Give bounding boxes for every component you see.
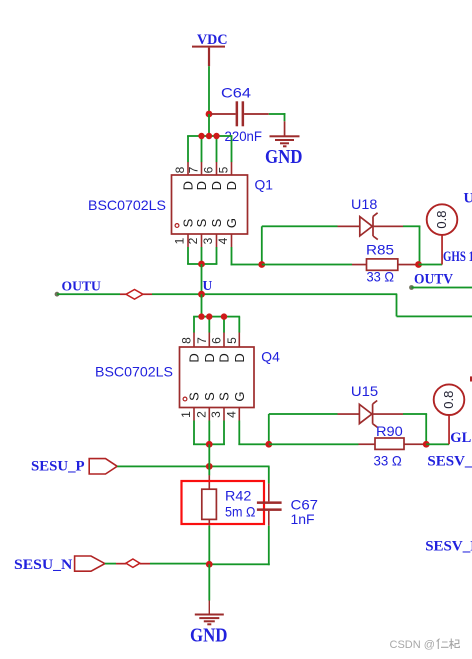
- Q4 top pin numbers 8 7 6 5: [180, 337, 239, 344]
- svg-text:G: G: [224, 218, 239, 228]
- Q1 pin names S S S G: [181, 218, 240, 228]
- svg-text:D: D: [217, 353, 232, 362]
- svg-text:R90: R90: [376, 423, 403, 439]
- svg-text:4: 4: [216, 237, 230, 244]
- wire node U to Q4: [201, 294, 203, 317]
- wire U15 to corner: [373, 413, 427, 445]
- svg-text:D: D: [194, 181, 209, 190]
- port SESU_N: [14, 556, 105, 573]
- svg-text:S: S: [209, 218, 224, 227]
- svg-text:8: 8: [173, 166, 187, 173]
- svg-text:U1: U1: [464, 191, 472, 207]
- wire C67 branch: [268, 466, 270, 565]
- svg-text:GND: GND: [190, 625, 228, 647]
- svg-text:3: 3: [209, 411, 223, 418]
- wire Q4 gate: [238, 414, 269, 445]
- wire Q1 source rail: [187, 247, 217, 265]
- svg-text:BSC0702LS: BSC0702LS: [88, 197, 166, 213]
- Q1 top pin numbers 8 7 6 5: [173, 166, 231, 173]
- wire Q1 gate: [231, 226, 263, 265]
- svg-text:S: S: [217, 392, 232, 401]
- svg-text:OUTV: OUTV: [414, 271, 453, 287]
- wire Q1 drain rail: [187, 114, 232, 162]
- svg-text:33 Ω: 33 Ω: [374, 453, 402, 469]
- wire SESU_N to C67 corner: [209, 563, 270, 565]
- svg-text:GHS 1: GHS 1: [443, 249, 472, 265]
- transistor Q4 body: [180, 347, 255, 408]
- Q1 bottom pin stubs: [187, 234, 232, 247]
- Q1 top pin stubs: [187, 162, 232, 176]
- svg-text:SESU_P: SESU_P: [31, 459, 85, 475]
- svg-text:5: 5: [217, 166, 231, 173]
- Q4 bottom pin stubs: [193, 408, 240, 421]
- svg-text:6: 6: [202, 166, 216, 173]
- svg-text:U18: U18: [351, 196, 378, 212]
- probe circle 0.8 top: [427, 204, 458, 235]
- junction Q1 gate: [258, 261, 265, 268]
- svg-text:33 Ω: 33 Ω: [367, 269, 395, 285]
- svg-text:0.8: 0.8: [434, 211, 449, 229]
- Q1 pin1 marker circle: [175, 224, 179, 228]
- wire OUTV: [409, 285, 472, 290]
- junction Q4 source: [206, 441, 213, 448]
- junction SESU_P: [206, 463, 213, 470]
- junction node U: [198, 291, 205, 298]
- resistor R42: [202, 487, 256, 519]
- svg-text:CSDN @: CSDN @: [390, 639, 435, 651]
- svg-text:D: D: [202, 353, 217, 362]
- svg-text:S: S: [194, 218, 209, 227]
- transistor Q1 body: [172, 175, 248, 234]
- svg-text:SESU_N: SESU_N: [14, 557, 72, 573]
- svg-text:C64: C64: [221, 85, 251, 101]
- svg-text:D: D: [232, 353, 247, 362]
- Q4 top pin stubs: [193, 333, 240, 348]
- Q1 pin names D D D D: [181, 181, 240, 190]
- svg-text:7: 7: [195, 337, 209, 344]
- wire Q4 source rail: [193, 421, 225, 446]
- watermark CSDN: [390, 639, 460, 652]
- junction R90 output: [423, 441, 430, 448]
- svg-text:1nF: 1nF: [291, 511, 315, 527]
- svg-text:R85: R85: [366, 241, 394, 257]
- svg-text:S: S: [202, 392, 217, 401]
- diode U15: [351, 383, 379, 427]
- junction dots Q1 drain rail: [198, 133, 219, 139]
- wire Q4 drain rail: [193, 316, 240, 333]
- wire to diode U18: [262, 225, 360, 227]
- Q1 bottom pin numbers 1 2 3 4: [173, 237, 231, 244]
- svg-text:SESV_N: SESV_N: [425, 539, 472, 555]
- svg-text:D: D: [224, 181, 239, 190]
- Q4 pin1 marker circle: [183, 397, 187, 401]
- svg-text:5m Ω: 5m Ω: [225, 503, 255, 519]
- wire R42 bottom: [208, 519, 210, 565]
- port SESU_P: [31, 459, 117, 475]
- svg-text:SESV_P: SESV_P: [427, 454, 472, 470]
- svg-text:OUTU: OUTU: [62, 280, 101, 295]
- svg-text:5: 5: [225, 337, 239, 344]
- wire to ground bottom: [208, 564, 210, 614]
- svg-text:2: 2: [194, 411, 208, 418]
- no-ERC diamond OUTU: [126, 290, 143, 300]
- red tick right edge: [470, 376, 472, 381]
- resistor R85: [352, 241, 419, 284]
- svg-text:0.8: 0.8: [441, 391, 456, 409]
- svg-text:G: G: [232, 391, 247, 401]
- wire GHS: [419, 235, 443, 265]
- junction Q4 gate: [265, 441, 272, 448]
- Q4 pin names S S S G: [187, 391, 247, 401]
- capacitor C64: [211, 85, 269, 145]
- wire SESU_N: [105, 563, 209, 565]
- svg-text:D: D: [209, 181, 224, 190]
- junction at VDC/C64: [206, 111, 213, 118]
- svg-text:Q1: Q1: [255, 177, 274, 193]
- svg-text:1: 1: [173, 237, 187, 244]
- svg-text:GLS 1: GLS 1: [450, 430, 472, 446]
- ground symbol bottom: [190, 614, 228, 647]
- wire junction to R42: [208, 444, 210, 489]
- Q4 pin names D D D D: [187, 353, 247, 362]
- no-ERC diamond SESU_N: [126, 559, 140, 567]
- svg-text:R42: R42: [225, 487, 252, 503]
- svg-text:6: 6: [210, 337, 224, 344]
- junction dots Q4 drain rail: [198, 313, 227, 319]
- resistor R90: [359, 423, 427, 469]
- svg-text:Q4: Q4: [261, 349, 280, 365]
- svg-text:4: 4: [224, 411, 238, 418]
- svg-text:GND: GND: [265, 146, 303, 168]
- power port VDC: [192, 32, 228, 66]
- svg-text:U15: U15: [351, 383, 379, 399]
- svg-text:D: D: [187, 353, 202, 362]
- wire SESU_P: [117, 466, 269, 468]
- Q4 bottom pin numbers 1 2 3 4: [179, 411, 238, 418]
- junction Q1 source: [198, 261, 205, 268]
- wire C64 to ground: [269, 113, 286, 136]
- wire GLS: [426, 415, 450, 445]
- wire node U vertical: [201, 264, 203, 294]
- ground symbol top: [265, 135, 303, 168]
- svg-text:BSC0702LS: BSC0702LS: [95, 364, 173, 380]
- svg-text:S: S: [187, 392, 202, 401]
- diode U18: [351, 196, 378, 240]
- svg-text:1: 1: [179, 411, 193, 418]
- svg-text:8: 8: [180, 337, 194, 344]
- junction R85 output: [415, 261, 422, 268]
- wire U18 to corner: [374, 225, 421, 265]
- wire to diode U15: [269, 413, 360, 415]
- highlight box R42: [182, 481, 265, 524]
- wire to resistor R85: [262, 264, 352, 266]
- wire VDC vertical: [208, 66, 210, 114]
- svg-text:7: 7: [187, 166, 201, 173]
- wire OUTU: [55, 292, 472, 317]
- capacitor C67: [257, 497, 318, 528]
- svg-text:U: U: [203, 278, 213, 293]
- wire to resistor R90: [269, 443, 359, 445]
- junction SESU_N: [206, 561, 213, 568]
- probe circle 0.8 bottom: [434, 384, 465, 415]
- svg-text:3: 3: [201, 237, 215, 244]
